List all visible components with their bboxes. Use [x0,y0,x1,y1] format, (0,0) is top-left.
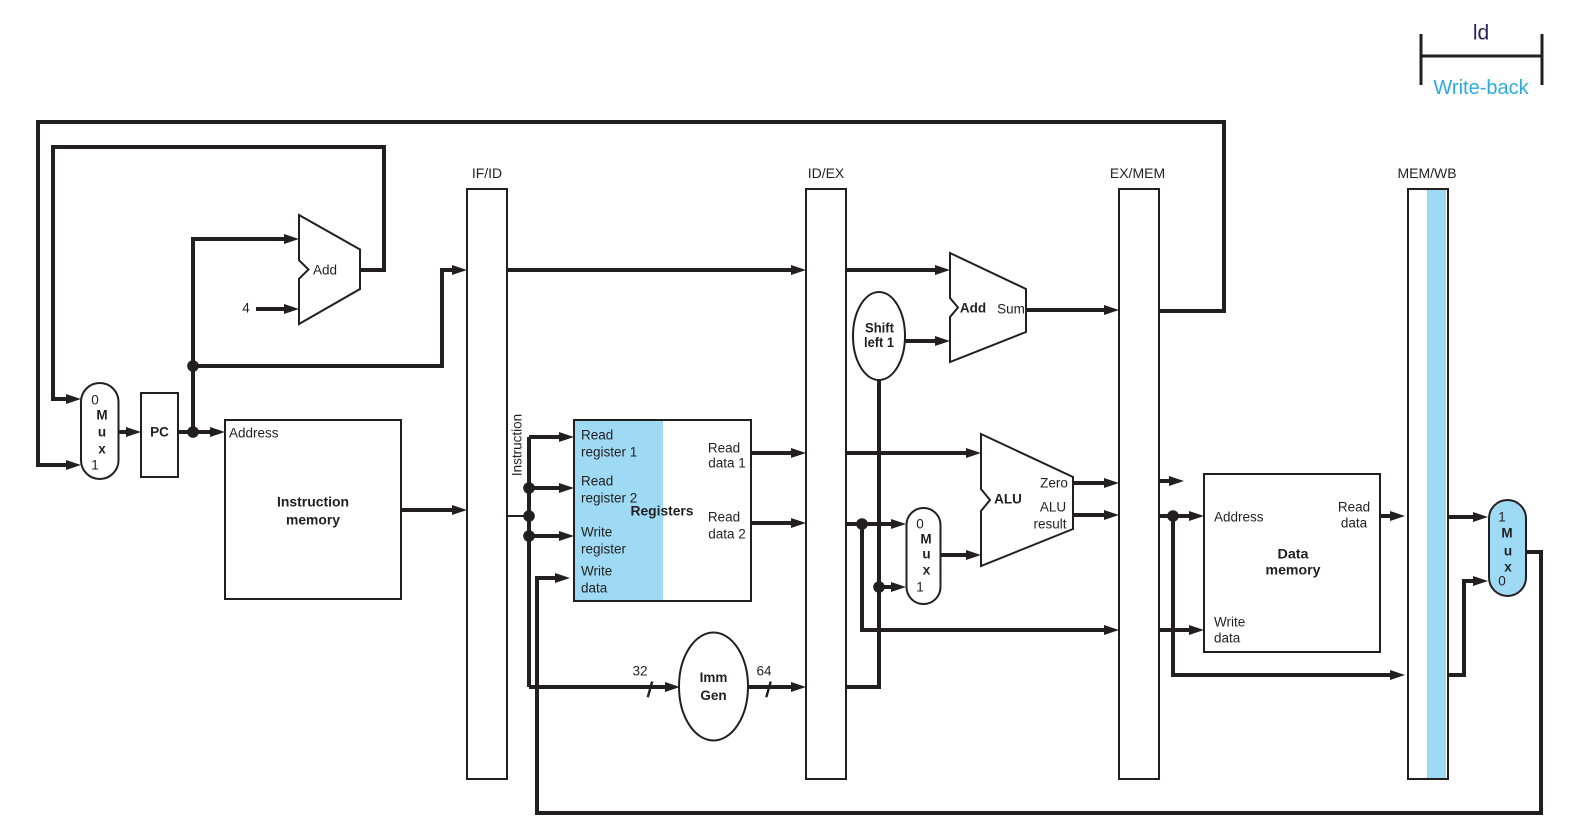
svg-text:ALU: ALU [994,492,1022,507]
junction PC output [187,426,199,438]
register PC [141,393,178,477]
wire Read data 2 to ID/EX [751,521,793,525]
wire Read data 2 to EX/MEM write data [862,524,1106,630]
svg-text:Instruction: Instruction [277,495,349,510]
register EX/MEM [1119,189,1159,779]
shifter Shift left 1 [853,292,905,380]
wire MEM/WB Read data to write-back mux input 1 [1448,515,1475,519]
svg-text:x: x [98,442,106,457]
wire PC value to IF/ID [193,270,454,366]
svg-text:data: data [1341,516,1368,531]
wire ID/EX to ALU top input [846,451,968,455]
junction ALU result fanout [1167,510,1179,522]
wire ALUSrc mux output to ALU bottom input [941,553,968,557]
svg-text:Shift: Shift [865,321,894,336]
svg-text:0: 0 [91,393,99,408]
register MEM/WB [1408,189,1448,779]
memory Data memory [1204,474,1380,652]
svg-text:1: 1 [1498,510,1506,525]
svg-text:Instruction: Instruction [510,414,525,476]
svg-text:MEM/WB: MEM/WB [1397,165,1456,181]
wire EX/MEM to data memory Write data [1159,628,1191,632]
svg-text:Write: Write [1214,615,1245,630]
svg-text:Write: Write [581,564,612,579]
svg-text:Address: Address [229,426,279,441]
node 64-bit width marker [756,664,772,698]
wire instruction to Imm Gen [529,685,667,689]
svg-text:register 2: register 2 [581,491,637,506]
svg-text:x: x [923,563,931,578]
svg-text:register: register [581,542,627,557]
register IF/ID [467,189,507,779]
svg-text:ID/EX: ID/EX [808,165,845,181]
svg-text:data 1: data 1 [708,456,746,471]
svg-text:Sum: Sum [997,302,1025,317]
svg-text:register 1: register 1 [581,445,637,460]
svg-text:Imm: Imm [700,670,728,685]
wire ALU result to EX/MEM [1073,513,1106,517]
wire data memory Read data to MEM/WB [1380,514,1392,518]
register ID/EX [806,189,846,779]
svg-text:4: 4 [242,301,250,316]
wire instruction fanout vertical [527,437,531,687]
wire Read data 1 to ID/EX [751,451,793,455]
node 32-bit width marker [632,664,652,698]
svg-text:Add: Add [960,301,986,316]
svg-text:M: M [1501,526,1512,541]
wire instruction memory to IF/ID [401,508,454,512]
mux write-back MemtoReg [1489,500,1526,596]
svg-text:IF/ID: IF/ID [472,165,502,181]
wire branch Add Sum to EX/MEM [1026,308,1106,312]
generator Imm Gen [679,633,748,741]
wire branch target EX/MEM to PC mux input 1 [38,122,1224,465]
wire ID/EX immediate to Shift left 1 [846,380,879,687]
mux PC source [81,383,119,479]
wire instruction to Write register [529,534,561,538]
svg-text:Read: Read [1338,500,1370,515]
svg-text:Write: Write [581,525,612,540]
svg-text:Zero: Zero [1040,476,1068,491]
wire MEM/WB ALU result to write-back mux input 0 [1448,581,1475,675]
junction immediate fanout [873,581,885,593]
junction PC to IF/ID branch [187,360,199,372]
alu ALU [981,434,1073,566]
wire immediate to ALUSrc mux input 1 [879,585,893,589]
svg-text:Address: Address [1214,510,1264,525]
wire Shift left 1 to branch Add bottom input [905,339,937,343]
svg-text:1: 1 [91,458,99,473]
wire EX/MEM Zero out [1159,479,1171,483]
wire IF/ID PC to ID/EX [507,268,793,272]
svg-text:32: 32 [632,664,647,679]
wire EX/MEM ALU result to data memory Address [1159,514,1191,518]
svg-text:ALU: ALU [1040,500,1066,515]
svg-text:x: x [1504,560,1512,575]
svg-text:PC: PC [150,425,169,440]
wire write-back mux output to Registers Write data [537,552,1541,813]
wire PC to instruction memory Address [177,430,212,434]
wire ID/EX PC to branch Add top input [846,268,937,272]
wire ALU Zero to EX/MEM [1073,481,1106,485]
svg-text:memory: memory [1266,563,1322,578]
svg-text:u: u [922,547,930,562]
svg-text:u: u [98,425,106,440]
svg-text:EX/MEM: EX/MEM [1110,165,1165,181]
svg-text:left 1: left 1 [864,335,894,350]
svg-text:64: 64 [756,664,772,679]
svg-text:Read: Read [708,441,740,456]
svg-text:u: u [1504,544,1512,559]
svg-text:result: result [1033,517,1066,532]
junction read register 2 branch [523,482,535,494]
adder Add PC+4 [299,215,360,324]
svg-text:ld: ld [1473,22,1489,45]
svg-text:Read: Read [708,510,740,525]
svg-text:Read: Read [581,474,613,489]
wire ALU result bypass to MEM/WB [1173,516,1392,675]
wire PC to Add top input [193,239,286,432]
svg-text:data: data [1214,631,1241,646]
svg-text:Gen: Gen [700,688,726,703]
svg-text:Data: Data [1278,547,1310,562]
svg-text:M: M [96,408,107,423]
svg-text:Read: Read [581,428,613,443]
memory Instruction memory [225,420,401,599]
wire PC+4 Add output to PC mux input 0 [53,147,384,399]
svg-text:0: 0 [1498,574,1506,589]
svg-text:1: 1 [916,580,924,595]
svg-text:M: M [920,532,931,547]
adder Add branch target [950,253,1026,362]
wire constant 4 to Add bottom input [256,307,286,311]
svg-text:memory: memory [286,513,340,528]
wire ID/EX Read data 2 to ALUSrc mux input 0 [846,522,893,526]
wire Imm Gen to ID/EX [746,685,793,689]
svg-text:data 2: data 2 [708,527,746,542]
junction instruction fanout middle [523,510,535,522]
wire PC mux output to PC [118,430,128,434]
wire instruction to Read register 2 [529,486,561,490]
svg-text:Registers: Registers [631,504,694,519]
mux ALUSrc [907,508,941,604]
wire stage bracket [1421,34,1542,85]
registers Register file [574,420,751,601]
svg-text:Write-back: Write-back [1433,77,1529,99]
svg-text:0: 0 [916,517,924,532]
svg-text:data: data [581,581,608,596]
wire instruction to Read register 1 [529,435,561,439]
svg-text:Add: Add [313,263,337,278]
wire IF/ID instruction output [507,515,529,517]
junction write register branch [523,530,535,542]
junction read data 2 fanout [856,518,868,530]
